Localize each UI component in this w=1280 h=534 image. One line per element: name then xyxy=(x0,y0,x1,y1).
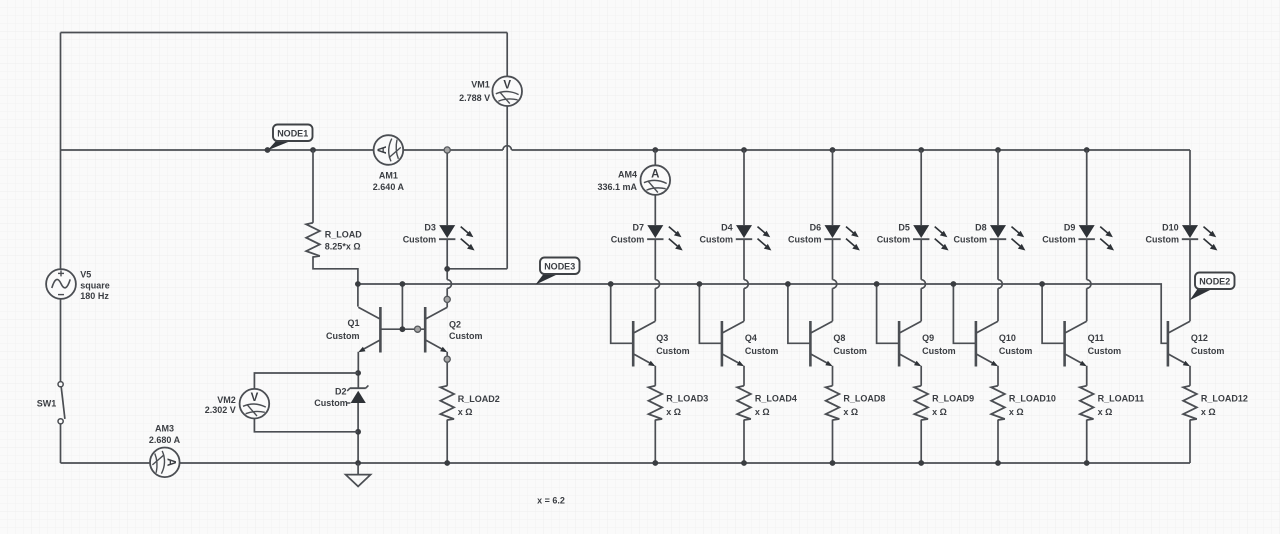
svg-text:Custom: Custom xyxy=(1088,346,1122,356)
svg-text:x = 6.2: x = 6.2 xyxy=(537,496,565,506)
wire VM1 bottom lead xyxy=(447,268,507,270)
svg-text:2.640 A: 2.640 A xyxy=(373,182,405,192)
ammeter AM3 xyxy=(150,448,180,478)
voltage source V5 xyxy=(46,269,76,299)
svg-text:Q10: Q10 xyxy=(999,333,1016,343)
svg-text:Custom: Custom xyxy=(1146,235,1180,245)
label V5 value xyxy=(80,269,110,301)
wire base tap Q3 xyxy=(611,284,634,343)
svg-text:Custom: Custom xyxy=(833,346,867,356)
svg-text:V5: V5 xyxy=(80,269,91,279)
junction dot base tap Q9 xyxy=(874,281,880,287)
label D3 xyxy=(403,223,437,245)
label D2 xyxy=(314,386,350,408)
label D4 xyxy=(700,223,734,245)
wire D8 column top xyxy=(997,150,999,225)
svg-text:V: V xyxy=(503,80,511,92)
svg-text:8.25*x Ω: 8.25*x Ω xyxy=(325,242,361,252)
svg-text:AM4: AM4 xyxy=(618,170,637,180)
label R_LOAD2 value xyxy=(458,394,500,417)
junction dot R_LOAD top xyxy=(310,147,316,153)
wire D9 column top xyxy=(1086,150,1088,225)
junction dot D8 column on main rail xyxy=(995,147,1001,153)
label D10 xyxy=(1146,223,1180,245)
svg-text:Q3: Q3 xyxy=(656,333,668,343)
junction dot base tap Q4 xyxy=(697,281,703,287)
svg-text:x Ω: x Ω xyxy=(1009,407,1024,417)
wire Q2 emitter lead xyxy=(446,352,448,386)
junction dot D7 column on main rail xyxy=(652,147,658,153)
wire R_LOAD top lead xyxy=(312,150,314,223)
node NODE2 tag xyxy=(1190,273,1235,301)
svg-text:R_LOAD4: R_LOAD4 xyxy=(755,394,797,404)
svg-text:336.1 mA: 336.1 mA xyxy=(597,182,637,192)
label D5 xyxy=(877,223,911,245)
resistor R_LOAD2 xyxy=(440,386,454,420)
wire top loop (V+ rail to VM1) xyxy=(61,33,508,151)
wire D8 to Q10 collector xyxy=(997,239,999,321)
label D6 xyxy=(788,223,822,245)
svg-text:x Ω: x Ω xyxy=(458,407,473,417)
wire left column (to V5, SW1) xyxy=(60,150,62,381)
svg-text:D9: D9 xyxy=(1064,223,1076,233)
svg-text:Custom: Custom xyxy=(877,235,911,245)
LED D3 xyxy=(439,225,475,250)
LED D9 xyxy=(1079,225,1115,250)
svg-text:2.788 V: 2.788 V xyxy=(459,93,490,103)
switch SW1 xyxy=(58,382,65,424)
wire D4 to Q4 collector xyxy=(743,239,745,321)
node NODE3 tag xyxy=(536,258,580,285)
svg-text:D4: D4 xyxy=(721,223,733,233)
wire D9 to Q11 collector xyxy=(1086,239,1088,321)
wire R_LOAD2 bottom lead xyxy=(446,420,448,463)
wire R_LOAD8 bottom lead xyxy=(832,420,834,463)
wire R_LOAD9 bottom lead xyxy=(920,420,922,463)
LED D4 xyxy=(736,225,772,250)
svg-text:R_LOAD3: R_LOAD3 xyxy=(666,394,708,404)
svg-text:Custom: Custom xyxy=(1191,346,1225,356)
junction dot R_LOAD10 ground xyxy=(995,460,1001,466)
wire R_LOAD12 bottom lead xyxy=(1189,420,1191,463)
svg-text:180 Hz: 180 Hz xyxy=(80,291,109,301)
wire hop D6 over NODE3 bus xyxy=(833,280,837,289)
wire main NODE1 rail xyxy=(61,149,1191,151)
wire VM2 leads xyxy=(254,373,358,432)
transistor Q12 xyxy=(1168,321,1190,367)
wire Q11 emitter lead xyxy=(1086,366,1088,386)
label R_LOAD3 value xyxy=(666,394,708,418)
svg-text:R_LOAD9: R_LOAD9 xyxy=(932,394,974,404)
label R_LOAD8 value xyxy=(843,394,885,418)
junction dot base tap Q10 xyxy=(951,281,957,287)
wire base tap Q4 xyxy=(699,284,722,343)
junction dot VM2 top xyxy=(355,370,361,376)
svg-text:Custom: Custom xyxy=(1042,235,1076,245)
svg-text:D5: D5 xyxy=(898,223,910,233)
resistor R_LOAD12 xyxy=(1183,386,1197,420)
svg-text:SW1: SW1 xyxy=(37,398,57,408)
wire Q1 emitter to D2 xyxy=(357,352,359,388)
wire D3 to VM1 junction xyxy=(446,239,448,280)
svg-text:R_LOAD12: R_LOAD12 xyxy=(1201,394,1248,404)
label VM2 value xyxy=(205,395,236,415)
svg-text:D2: D2 xyxy=(335,386,347,396)
wire hop D8 over NODE3 bus xyxy=(998,280,1002,289)
resistor R_LOAD9 xyxy=(914,386,928,420)
junction dot R_LOAD11 ground xyxy=(1084,460,1090,466)
svg-text:D8: D8 xyxy=(975,223,987,233)
junction dot D5 column on main rail xyxy=(918,147,924,153)
wire hop D9 over NODE3 bus xyxy=(1087,280,1091,289)
label R_LOAD9 value xyxy=(932,394,974,418)
resistor R_LOAD10 xyxy=(991,386,1005,420)
label Q11 xyxy=(1088,333,1122,356)
resistor R_LOAD4 xyxy=(737,386,751,420)
junction dot base tap Q8 xyxy=(785,281,791,287)
svg-text:Custom: Custom xyxy=(954,235,988,245)
svg-text:A: A xyxy=(164,458,176,466)
svg-text:Custom: Custom xyxy=(326,331,360,341)
ammeter AM4 xyxy=(641,165,671,195)
resistor R_LOAD8 xyxy=(826,386,840,420)
svg-text:square: square xyxy=(80,281,110,291)
transistor Q2 xyxy=(425,307,447,353)
svg-text:Custom: Custom xyxy=(999,346,1033,356)
label R_LOAD12 value xyxy=(1201,394,1248,418)
wire Q1-Q2 base link xyxy=(380,328,425,330)
wire D10 column top xyxy=(1189,150,1191,225)
label Q10 xyxy=(999,333,1033,356)
svg-text:R_LOAD11: R_LOAD11 xyxy=(1098,394,1145,404)
junction dot ground tap xyxy=(355,460,361,466)
svg-text:Custom: Custom xyxy=(403,235,437,245)
LED D8 xyxy=(990,225,1026,250)
junction dot base tap on bus xyxy=(400,281,406,287)
label Q1 xyxy=(326,318,360,341)
wire D7 column top xyxy=(654,150,656,225)
LED D10 xyxy=(1182,225,1218,250)
svg-text:Custom: Custom xyxy=(611,235,645,245)
junction dot base link xyxy=(400,326,406,332)
wire D4 column top xyxy=(743,150,745,225)
wire base tap Q10 xyxy=(953,284,976,343)
wire bus to Q1Q2 bases xyxy=(401,284,403,329)
svg-text:Q1: Q1 xyxy=(347,318,359,328)
ammeter AM1 xyxy=(374,135,404,165)
resistor R_LOAD xyxy=(306,223,320,257)
junction dot NODE1 on rail xyxy=(265,147,271,153)
wire hop D5 over NODE3 bus xyxy=(921,280,925,289)
junction dot base tap Q3 xyxy=(608,281,614,287)
wire hop main rail over VM1 branch xyxy=(503,146,512,150)
wire Q3 emitter lead xyxy=(654,366,656,386)
svg-text:x Ω: x Ω xyxy=(666,407,681,417)
LED D7 xyxy=(647,225,683,250)
svg-text:x Ω: x Ω xyxy=(755,407,770,417)
svg-text:x Ω: x Ω xyxy=(1201,407,1216,417)
label R_LOAD4 value xyxy=(755,394,797,418)
label Q8 xyxy=(833,333,867,356)
wire R_LOAD3 bottom lead xyxy=(654,420,656,463)
ground symbol xyxy=(346,463,371,486)
junction dot R_LOAD2 ground xyxy=(444,460,450,466)
junction dot D6 column on main rail xyxy=(830,147,836,153)
transistor Q9 xyxy=(899,321,921,367)
label Q12 xyxy=(1191,333,1225,356)
svg-text:AM3: AM3 xyxy=(155,423,174,433)
svg-text:Custom: Custom xyxy=(700,235,734,245)
wire NODE3 bus xyxy=(358,284,1168,343)
label D7 xyxy=(611,223,645,245)
svg-text:Q11: Q11 xyxy=(1088,333,1105,343)
wire D2 to ground rail xyxy=(357,403,359,463)
svg-text:Q9: Q9 xyxy=(922,333,934,343)
wire Q4 emitter lead xyxy=(743,366,745,386)
label D9 xyxy=(1042,223,1076,245)
svg-text:NODE1: NODE1 xyxy=(277,128,308,138)
wire D7 to Q3 collector xyxy=(654,239,656,321)
svg-text:NODE2: NODE2 xyxy=(1199,276,1230,286)
wire base tap Q11 xyxy=(1042,284,1065,343)
wire hop D7 over NODE3 bus xyxy=(655,280,659,289)
junction dot R_LOAD9 ground xyxy=(918,460,924,466)
svg-text:A: A xyxy=(651,169,659,181)
junction dot D3-VM1 xyxy=(444,266,450,272)
svg-text:2.680 A: 2.680 A xyxy=(149,435,181,445)
wire R_LOAD4 bottom lead xyxy=(743,420,745,463)
junction dot D9 column on main rail xyxy=(1084,147,1090,153)
resistor R_LOAD3 xyxy=(649,386,663,420)
transistor Q8 xyxy=(810,321,832,367)
terminal Q2 emitter xyxy=(444,356,450,362)
junction dot R_LOAD4 ground xyxy=(741,460,747,466)
wire Q12 emitter lead xyxy=(1189,366,1191,386)
svg-text:2.302 V: 2.302 V xyxy=(205,405,236,415)
svg-text:Q8: Q8 xyxy=(833,333,845,343)
node NODE1 tag xyxy=(268,125,313,151)
label VM1 value xyxy=(459,80,490,103)
transistor Q10 xyxy=(976,321,998,367)
label R_LOAD11 value xyxy=(1098,394,1145,418)
svg-text:D6: D6 xyxy=(810,223,822,233)
svg-text:D3: D3 xyxy=(424,223,436,233)
svg-text:D10: D10 xyxy=(1162,223,1179,233)
transistor Q1 xyxy=(358,307,380,353)
transistor Q11 xyxy=(1065,321,1087,367)
svg-text:R_LOAD2: R_LOAD2 xyxy=(458,394,500,404)
svg-text:x Ω: x Ω xyxy=(1098,407,1113,417)
resistor R_LOAD11 xyxy=(1080,386,1094,420)
wire D6 column top xyxy=(832,150,834,225)
label R_LOAD10 value xyxy=(1009,394,1056,418)
svg-text:AM1: AM1 xyxy=(379,170,398,180)
LED D6 xyxy=(824,225,860,250)
svg-text:V: V xyxy=(251,392,259,404)
junction dot R_LOAD3 ground xyxy=(652,460,658,466)
transistor Q4 xyxy=(722,321,744,367)
svg-text:Custom: Custom xyxy=(788,235,822,245)
label Q9 xyxy=(922,333,956,356)
svg-text:VM2: VM2 xyxy=(217,395,236,405)
wire SW1 to bottom rail xyxy=(60,424,62,463)
label AM3 value xyxy=(149,423,181,445)
svg-text:x Ω: x Ω xyxy=(932,407,947,417)
label AM1 value xyxy=(373,170,405,192)
junction dot VM2 bottom xyxy=(355,429,361,435)
wire D10 to Q12 collector xyxy=(1189,239,1191,321)
wire R_LOAD10 bottom lead xyxy=(997,420,999,463)
svg-text:Custom: Custom xyxy=(449,331,483,341)
wire D5 to Q9 collector xyxy=(920,239,922,321)
label x = 6.2 xyxy=(537,496,565,506)
wire Q8 emitter lead xyxy=(832,366,834,386)
label SW1 xyxy=(37,398,57,408)
junction dot bus left end xyxy=(355,281,361,287)
voltmeter VM2 xyxy=(240,389,270,419)
svg-text:A: A xyxy=(377,146,389,154)
voltmeter VM1 xyxy=(492,76,522,106)
wire D3 top lead xyxy=(446,153,448,225)
wire base tap Q8 xyxy=(788,284,811,343)
zener diode D2 xyxy=(347,385,368,403)
wire bottom ground rail xyxy=(61,462,1191,464)
svg-text:NODE3: NODE3 xyxy=(544,261,575,271)
label Q3 xyxy=(656,333,690,356)
terminal D3 anode on rail xyxy=(444,147,450,153)
label D8 xyxy=(954,223,988,245)
label AM4 value xyxy=(597,170,637,193)
svg-text:VM1: VM1 xyxy=(471,80,490,90)
svg-text:Custom: Custom xyxy=(656,346,690,356)
terminal Q2 base xyxy=(415,326,421,332)
wire R_LOAD11 bottom lead xyxy=(1086,420,1088,463)
junction dot R_LOAD8 ground xyxy=(830,460,836,466)
wire R_LOAD bottom to node xyxy=(313,256,358,306)
wire base tap Q9 xyxy=(877,284,900,343)
svg-text:R_LOAD10: R_LOAD10 xyxy=(1009,394,1056,404)
label Q4 xyxy=(745,333,779,356)
svg-text:Custom: Custom xyxy=(922,346,956,356)
svg-text:Q4: Q4 xyxy=(745,333,757,343)
svg-text:D7: D7 xyxy=(632,223,644,233)
label R_LOAD value xyxy=(325,230,363,252)
LED D5 xyxy=(913,225,949,250)
wire Q10 emitter lead xyxy=(997,366,999,386)
svg-text:R_LOAD: R_LOAD xyxy=(325,230,363,240)
svg-text:x Ω: x Ω xyxy=(843,407,858,417)
svg-text:Custom: Custom xyxy=(314,398,348,408)
svg-text:Q12: Q12 xyxy=(1191,333,1208,343)
terminal Q2 collector xyxy=(444,296,450,302)
wire D5 column top xyxy=(920,150,922,225)
label Q2 xyxy=(449,319,483,341)
wire VM1 vertical branch xyxy=(506,33,508,269)
svg-text:Q2: Q2 xyxy=(449,319,461,329)
svg-text:R_LOAD8: R_LOAD8 xyxy=(843,394,885,404)
junction dot D4 column on main rail xyxy=(741,147,747,153)
junction dot base tap Q11 xyxy=(1039,281,1045,287)
wire Q9 emitter lead xyxy=(920,366,922,386)
wire Q2 collector lead xyxy=(446,288,448,307)
svg-text:Custom: Custom xyxy=(745,346,779,356)
wire D6 to Q8 collector xyxy=(832,239,834,321)
wire hop D4 over NODE3 bus xyxy=(744,280,748,289)
transistor Q3 xyxy=(633,321,655,367)
wire hop D3 branch over NODE3 bus xyxy=(447,280,451,289)
